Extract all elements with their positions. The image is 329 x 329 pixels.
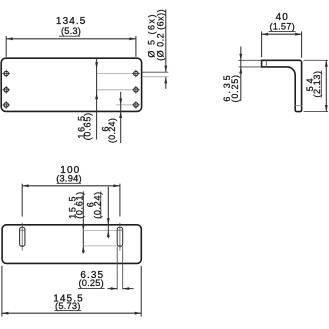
hole callout lower line	[165, 77, 167, 89]
dim 100 arrow left	[22, 184, 29, 187]
svg-text:(Ø 0.2 (6x)): (Ø 0.2 (6x))	[155, 9, 165, 61]
hole callout arrow down	[164, 66, 167, 73]
dim 40 line	[262, 33, 302, 35]
side view leg tick	[295, 105, 301, 107]
dim 40 extension left	[261, 31, 263, 57]
dim 6 bottom arrow up	[107, 230, 110, 237]
right slot	[117, 227, 123, 246]
svg-text:(2.13): (2.13)	[312, 70, 322, 97]
dim 15.5 line	[82, 191, 84, 253]
dim 6.35 line	[240, 47, 242, 102]
dim 54 line	[325, 60, 327, 111]
dim 6 arrow up front	[119, 112, 122, 119]
hole bottom extension line	[143, 76, 169, 78]
hole row center line 2	[97, 89, 132, 91]
dim 16.5 line	[96, 58, 98, 139]
dim 134.5 arrow right	[129, 37, 136, 40]
svg-text:(5.73): (5.73)	[55, 301, 81, 311]
dim 145.5 arrow right	[135, 312, 142, 315]
dim 100 arrow right	[113, 184, 120, 187]
svg-text:(0.61): (0.61)	[75, 191, 85, 219]
hole A2	[2, 86, 10, 94]
hole row center line 1	[97, 73, 132, 75]
dim 15.5 arrow down	[82, 224, 85, 231]
dim 54 arrow bottom	[325, 105, 328, 112]
dim 40 arrow right	[295, 33, 302, 36]
dim 100 extension left	[21, 184, 23, 217]
dim 15.5 slot top extension	[83, 229, 116, 231]
dim 6 bottom line	[107, 187, 109, 239]
dim 134.5 inch underline	[59, 35, 80, 37]
right slot centerline	[119, 223, 121, 251]
dim 145.5 line	[2, 312, 141, 314]
dim 6.35 bottom left segment	[108, 288, 118, 290]
dim 145.5 extension right	[140, 266, 142, 317]
dim 40 arrow left	[262, 33, 269, 36]
svg-text:(5.3): (5.3)	[61, 26, 81, 36]
dim 100 inch underline	[57, 182, 82, 184]
dim 6 bottom text underline	[100, 191, 102, 218]
dim 54 inch underline	[320, 71, 322, 98]
hole B1	[132, 70, 140, 78]
svg-text:(0.25): (0.25)	[78, 278, 104, 288]
left slot centerline	[21, 223, 23, 251]
svg-text:(0.65): (0.65)	[83, 112, 93, 140]
dim 134.5 extension line left	[5, 36, 7, 57]
side view bracket outline	[262, 60, 302, 111]
dim 6 bottom arrow down	[107, 218, 110, 225]
hole B3	[132, 101, 140, 109]
dim 6.35 arrow down	[239, 54, 242, 61]
left slot	[20, 227, 25, 246]
front view plate outline	[1, 58, 141, 111]
dim 40 extension right	[301, 31, 303, 57]
dim 145.5 extension left	[1, 266, 3, 317]
hole top extension line	[143, 71, 169, 73]
svg-text:(1.57): (1.57)	[269, 22, 295, 32]
hole B2	[132, 86, 140, 94]
hole A1	[2, 70, 10, 78]
dim 15.5 arrow up	[82, 246, 85, 253]
dim 6 arrow down front	[119, 98, 122, 105]
dim 134.5 extension line right	[135, 36, 137, 57]
dim 54 extension bottom	[304, 111, 329, 113]
dim 6.35 bottom inch underline	[78, 288, 105, 290]
svg-text:(0.24): (0.24)	[107, 118, 117, 143]
dim 6.35 extension top	[238, 59, 261, 61]
dim 6.35 extension bottom	[238, 66, 261, 68]
side view flange tick	[265, 60, 267, 67]
dim 6.35 bottom slot left extension	[116, 247, 118, 290]
hole row center line 3	[116, 104, 132, 106]
dim 134.5 arrow left	[6, 37, 13, 40]
dim 40 inch underline	[269, 30, 296, 32]
dim 145.5 arrow left	[2, 312, 8, 315]
hole callout arrow up	[164, 77, 167, 84]
dim 16.5 arrow down	[95, 62, 98, 69]
dim 6.35 bottom slot right extension	[122, 247, 124, 290]
dim 54 arrow top	[325, 60, 328, 67]
dim 16.5 arrow up	[95, 93, 98, 100]
dim 134.5 line	[6, 38, 136, 40]
dim 6 line front	[120, 92, 122, 143]
dim 54 extension top	[304, 59, 329, 61]
dim 15.5 slot bottom extension	[83, 245, 116, 247]
dim 100 line	[22, 185, 120, 187]
dim 6.35 bottom arrow left	[123, 287, 130, 290]
hole A3	[2, 101, 10, 109]
dim 6.35 bottom right segment	[123, 288, 134, 290]
dim 145.5 inch underline	[55, 309, 82, 311]
svg-text:(3.94): (3.94)	[56, 174, 82, 184]
bottom view plate outline	[2, 225, 141, 264]
dim 6.35 bottom arrow right	[111, 287, 118, 290]
hole callout leader line	[165, 10, 167, 73]
dim 100 extension right	[119, 184, 121, 217]
dim 6.35 arrow up	[239, 67, 242, 74]
svg-text:(0.25): (0.25)	[230, 74, 240, 102]
